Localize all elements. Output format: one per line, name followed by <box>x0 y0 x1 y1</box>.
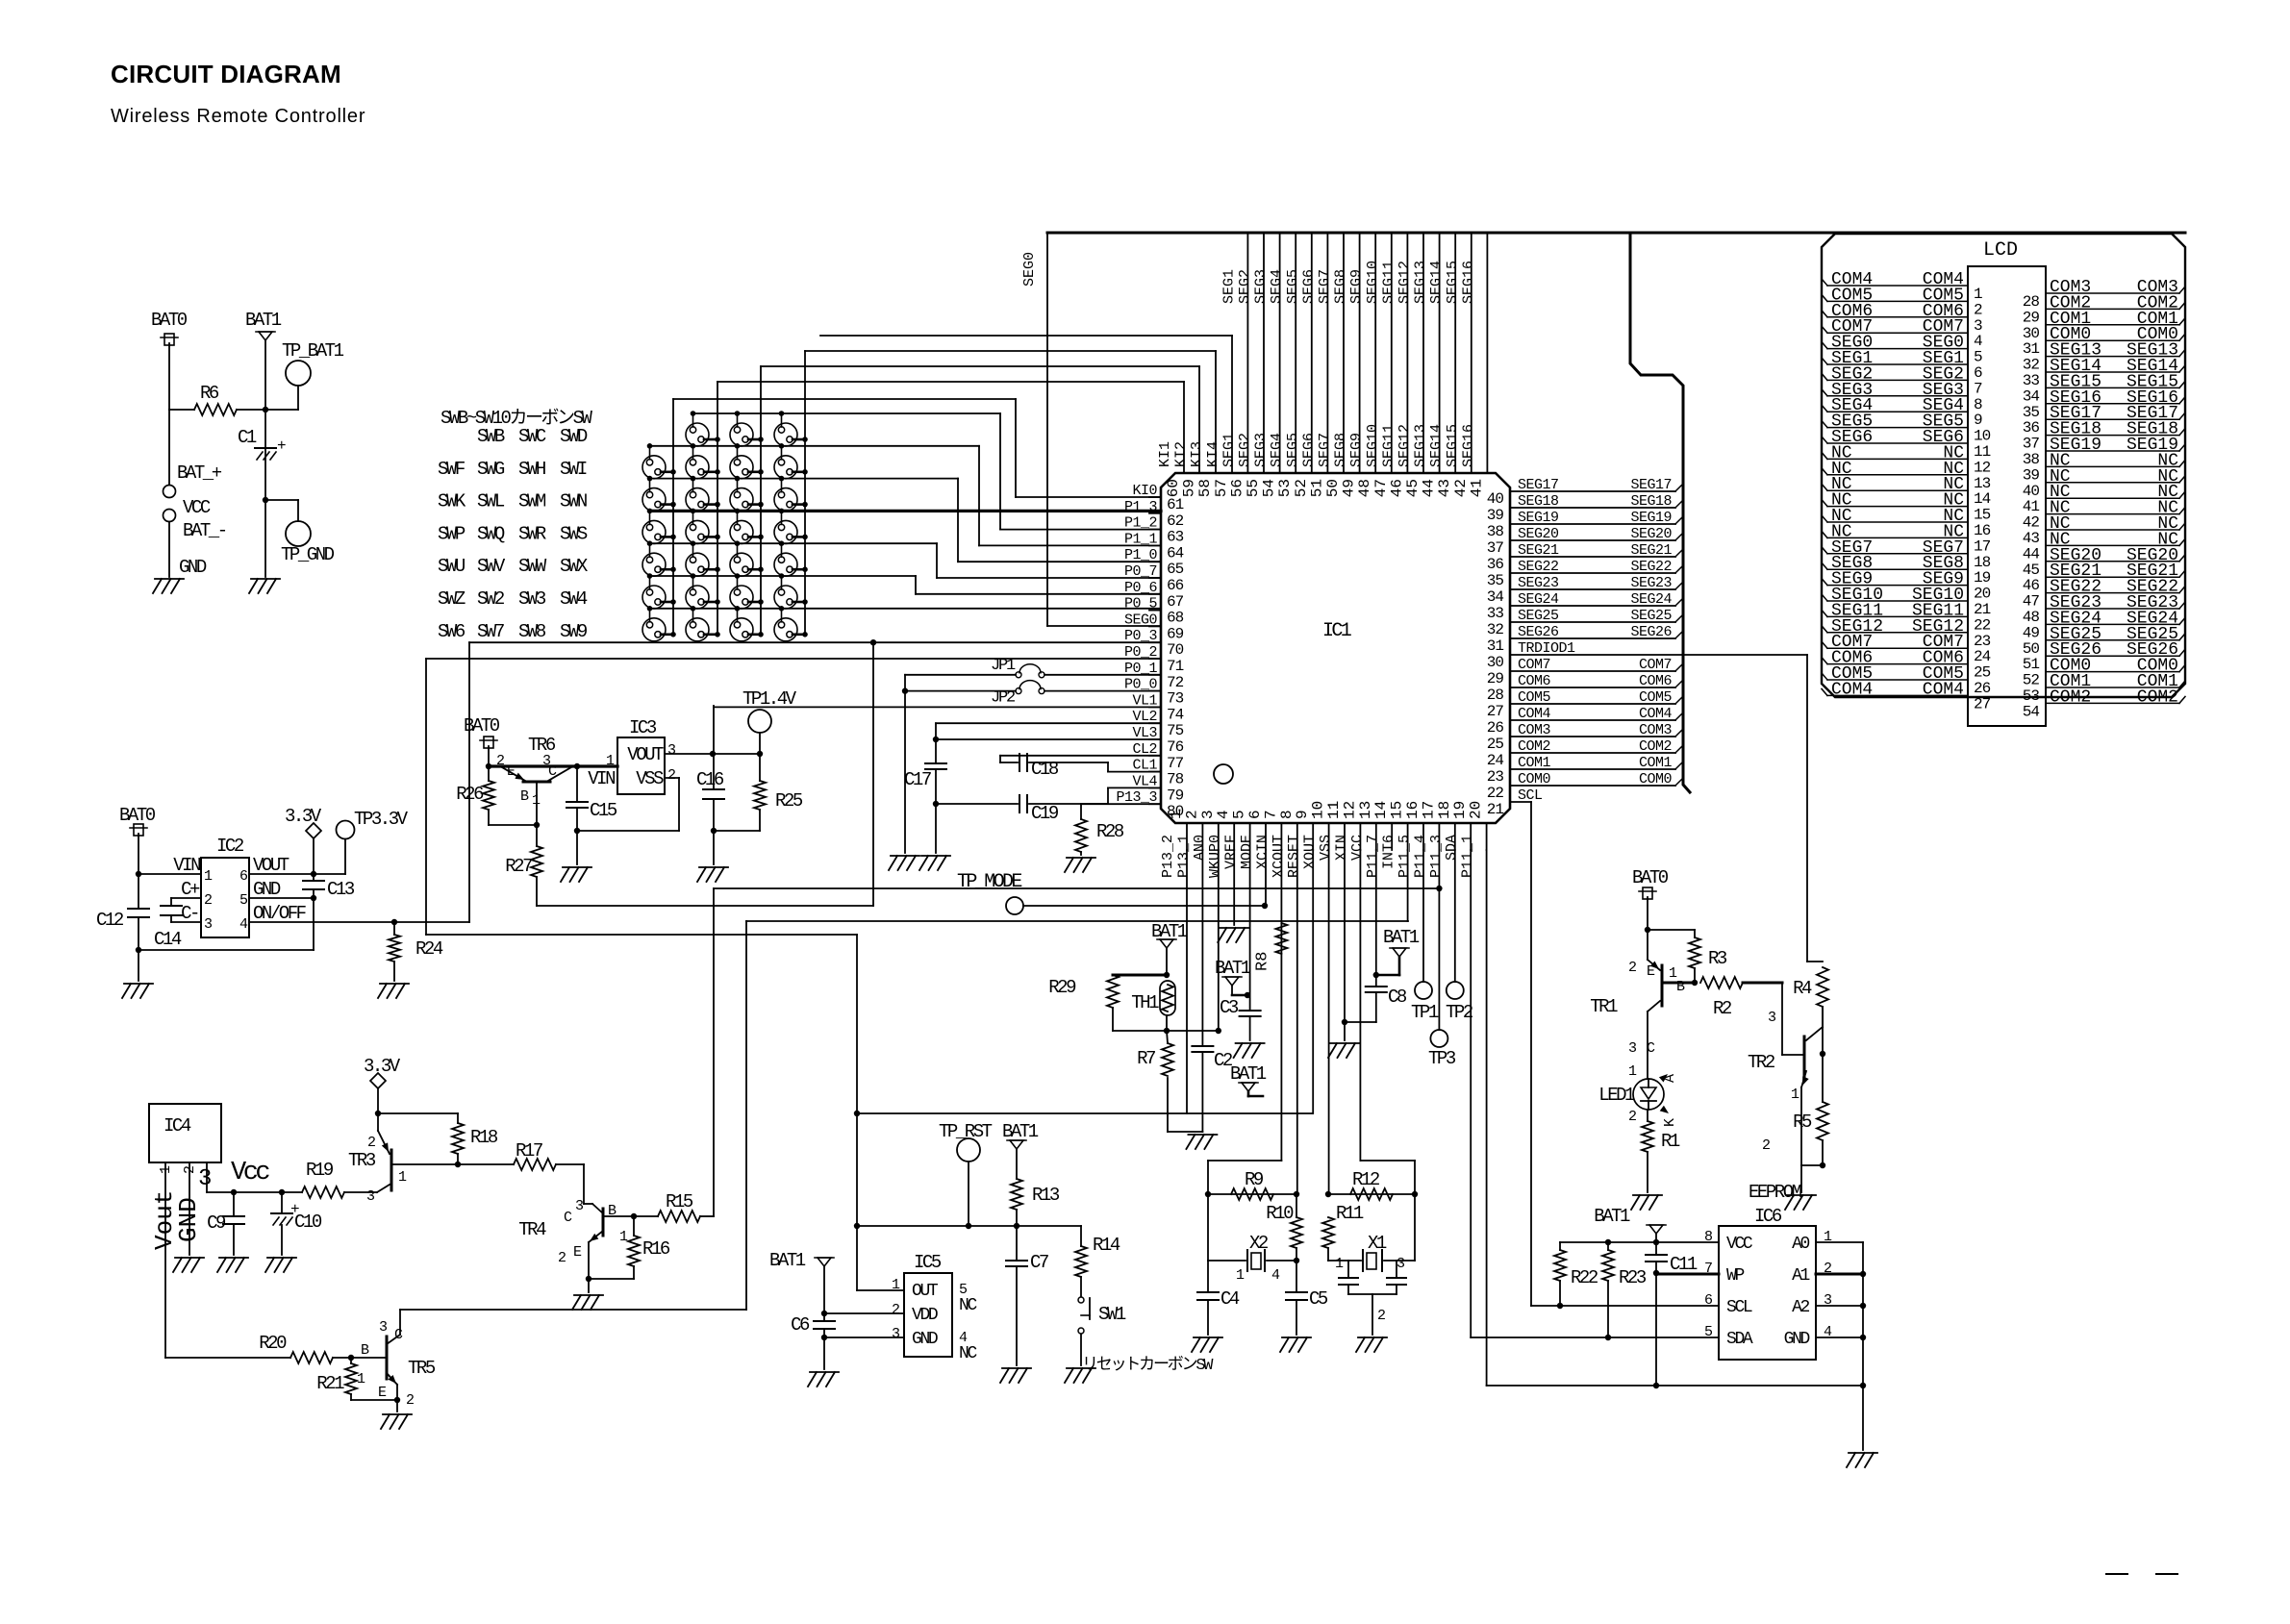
svg-text:SWS: SWS <box>560 523 588 544</box>
svg-text:54: 54 <box>1261 479 1278 497</box>
svg-text:SWZ: SWZ <box>438 588 466 610</box>
svg-text:TP_MODE: TP_MODE <box>957 871 1021 893</box>
svg-text:2: 2 <box>367 1135 375 1151</box>
svg-text:COM4: COM4 <box>1831 680 1873 699</box>
svg-text:SW6: SW6 <box>438 621 466 642</box>
svg-text:GND: GND <box>253 879 281 900</box>
svg-text:14: 14 <box>1372 801 1390 819</box>
svg-text:SEG11: SEG11 <box>1380 261 1397 304</box>
svg-text:12: 12 <box>1341 801 1358 819</box>
svg-text:SDA: SDA <box>1444 835 1460 861</box>
svg-text:TP3: TP3 <box>1428 1048 1456 1069</box>
svg-text:R1: R1 <box>1661 1131 1680 1152</box>
svg-text:C15: C15 <box>590 800 617 821</box>
svg-text:C19: C19 <box>1031 803 1059 824</box>
svg-text:SEG1: SEG1 <box>1220 433 1237 467</box>
svg-text:C4: C4 <box>1220 1288 1240 1310</box>
svg-text:9: 9 <box>1294 810 1311 819</box>
svg-text:CIRCUIT DIAGRAM: CIRCUIT DIAGRAM <box>111 60 341 88</box>
svg-text:SEG7: SEG7 <box>1317 433 1333 467</box>
svg-text:69: 69 <box>1167 625 1184 642</box>
svg-text:25: 25 <box>1487 736 1504 753</box>
svg-text:R29: R29 <box>1048 977 1076 998</box>
svg-text:21: 21 <box>1487 801 1504 818</box>
svg-text:9: 9 <box>1974 412 1982 429</box>
svg-text:42: 42 <box>2023 514 2040 532</box>
svg-text:SWC: SWC <box>518 426 546 447</box>
svg-text:38: 38 <box>1487 523 1504 540</box>
svg-text:12: 12 <box>1974 459 1991 476</box>
svg-text:50: 50 <box>2023 640 2040 658</box>
svg-text:73: 73 <box>1167 690 1184 708</box>
svg-text:2: 2 <box>1183 810 1200 819</box>
svg-text:A0: A0 <box>1792 1235 1809 1254</box>
svg-text:R2: R2 <box>1713 998 1732 1019</box>
svg-text:SW8: SW8 <box>518 621 546 642</box>
svg-text:WKUP0: WKUP0 <box>1207 835 1223 878</box>
svg-text:13: 13 <box>1974 475 1991 492</box>
svg-text:VCC: VCC <box>183 497 211 518</box>
svg-text:48: 48 <box>2023 609 2040 626</box>
svg-text:SEG6: SEG6 <box>1300 269 1317 304</box>
svg-text:BAT1: BAT1 <box>1215 958 1251 979</box>
svg-text:44: 44 <box>2023 545 2040 562</box>
svg-text:C-: C- <box>181 903 198 924</box>
svg-text:8: 8 <box>1974 396 1982 413</box>
svg-text:78: 78 <box>1167 771 1184 788</box>
svg-text:53: 53 <box>1276 479 1294 497</box>
svg-text:8: 8 <box>1278 810 1296 819</box>
svg-text:SWL: SWL <box>477 491 505 512</box>
svg-text:2: 2 <box>406 1392 414 1409</box>
svg-text:SW4: SW4 <box>560 588 588 610</box>
svg-text:48: 48 <box>1356 479 1373 497</box>
svg-text:2: 2 <box>558 1250 566 1266</box>
svg-text:40: 40 <box>1487 490 1504 508</box>
svg-text:21: 21 <box>1974 601 1991 618</box>
svg-text:2: 2 <box>1628 960 1636 976</box>
svg-text:VREF: VREF <box>1223 835 1240 869</box>
svg-text:A2: A2 <box>1792 1298 1809 1317</box>
svg-text:BAT0: BAT0 <box>151 310 188 331</box>
svg-text:BAT0: BAT0 <box>1632 867 1669 888</box>
svg-text:COM4: COM4 <box>1923 680 1964 699</box>
svg-text:60: 60 <box>1165 479 1182 497</box>
svg-text:P11_7: P11_7 <box>1365 835 1381 878</box>
svg-text:SWR: SWR <box>518 523 546 544</box>
svg-text:R18: R18 <box>470 1127 498 1148</box>
svg-text:SEG10: SEG10 <box>1365 261 1381 304</box>
svg-text:24: 24 <box>1487 752 1504 769</box>
svg-text:70: 70 <box>1167 641 1184 659</box>
svg-text:19: 19 <box>1974 569 1991 587</box>
svg-text:67: 67 <box>1167 593 1184 611</box>
svg-text:49: 49 <box>2023 624 2040 641</box>
svg-text:TR4: TR4 <box>518 1219 546 1240</box>
svg-text:66: 66 <box>1167 577 1184 594</box>
svg-text:3: 3 <box>198 1166 211 1192</box>
svg-text:SW1: SW1 <box>1098 1304 1126 1325</box>
svg-text:K: K <box>1662 1118 1678 1127</box>
svg-text:SWI: SWI <box>560 459 587 480</box>
svg-text:BAT0: BAT0 <box>119 805 156 826</box>
svg-text:COM1: COM1 <box>1639 755 1673 771</box>
svg-text:SEG0: SEG0 <box>1021 252 1038 287</box>
svg-text:SEG22: SEG22 <box>1630 559 1672 575</box>
svg-text:62: 62 <box>1167 512 1184 530</box>
svg-text:C13: C13 <box>327 879 355 900</box>
svg-text:18: 18 <box>1974 554 1991 571</box>
svg-text:SW7: SW7 <box>477 621 504 642</box>
svg-text:42: 42 <box>1452 479 1470 497</box>
svg-text:6: 6 <box>1246 810 1264 819</box>
svg-text:63: 63 <box>1167 529 1184 546</box>
svg-text:SEG13: SEG13 <box>1413 261 1429 304</box>
svg-text:17: 17 <box>1420 801 1437 819</box>
svg-text:R19: R19 <box>306 1160 334 1181</box>
svg-text:19: 19 <box>1451 801 1469 819</box>
svg-text:P11_3: P11_3 <box>1428 835 1445 878</box>
svg-text:20: 20 <box>1468 801 1485 819</box>
svg-text:VOUT: VOUT <box>627 744 664 765</box>
svg-text:VSS: VSS <box>636 768 664 789</box>
svg-text:34: 34 <box>2023 387 2040 405</box>
svg-text:61: 61 <box>1167 496 1184 513</box>
svg-text:7: 7 <box>1262 810 1279 819</box>
svg-text:SEG14: SEG14 <box>1428 261 1445 304</box>
svg-text:R22: R22 <box>1571 1267 1598 1288</box>
svg-text:XCOUT: XCOUT <box>1271 835 1287 878</box>
svg-text:GND: GND <box>1784 1330 1810 1349</box>
svg-text:SEG8: SEG8 <box>1333 269 1349 304</box>
svg-text:SEG8: SEG8 <box>1333 433 1349 467</box>
svg-text:SW3: SW3 <box>518 588 546 610</box>
svg-text:74: 74 <box>1167 706 1184 723</box>
svg-text:C3: C3 <box>1220 997 1239 1018</box>
svg-text:3.3V: 3.3V <box>285 806 322 827</box>
svg-text:51: 51 <box>1308 479 1325 497</box>
svg-text:SEG4: SEG4 <box>1269 433 1285 467</box>
svg-text:65: 65 <box>1167 561 1184 578</box>
svg-text:4: 4 <box>1974 333 1982 350</box>
svg-text:COM6: COM6 <box>1639 673 1673 689</box>
svg-text:MODE: MODE <box>1239 835 1255 869</box>
svg-text:SWU: SWU <box>438 556 466 577</box>
svg-text:BAT1: BAT1 <box>1002 1121 1039 1142</box>
svg-text:C12: C12 <box>96 910 124 931</box>
svg-text:TP3.3V: TP3.3V <box>354 809 409 830</box>
svg-text:C17: C17 <box>904 769 931 790</box>
svg-text:Vcc: Vcc <box>231 1159 269 1187</box>
svg-text:BAT_-: BAT_- <box>183 520 226 541</box>
svg-text:R3: R3 <box>1708 948 1727 969</box>
svg-text:2: 2 <box>1974 301 1982 318</box>
svg-text:43: 43 <box>2023 530 2040 547</box>
svg-text:EEPROM: EEPROM <box>1749 1182 1802 1203</box>
svg-text:1: 1 <box>1168 810 1185 819</box>
svg-text:41: 41 <box>2023 498 2040 515</box>
svg-text:39: 39 <box>1487 507 1504 524</box>
svg-text:2: 2 <box>1628 1109 1636 1125</box>
svg-text:23: 23 <box>1487 768 1504 786</box>
svg-text:P11_4: P11_4 <box>1412 835 1428 878</box>
svg-text:SEG5: SEG5 <box>1285 433 1301 467</box>
svg-text:59: 59 <box>1181 479 1198 497</box>
svg-text:IC6: IC6 <box>1754 1206 1782 1227</box>
svg-text:SEG26: SEG26 <box>1630 624 1672 640</box>
svg-text:TR5: TR5 <box>408 1358 436 1379</box>
svg-text:22: 22 <box>1974 616 1991 634</box>
svg-text:2: 2 <box>204 892 212 909</box>
svg-text:41: 41 <box>1468 479 1485 497</box>
svg-text:BAT1: BAT1 <box>245 310 282 331</box>
svg-text:P11_5: P11_5 <box>1397 835 1413 878</box>
svg-text:COM5: COM5 <box>1639 689 1673 706</box>
svg-text:45: 45 <box>1404 479 1422 497</box>
svg-text:SEG12: SEG12 <box>1397 424 1413 467</box>
svg-text:57: 57 <box>1213 479 1230 497</box>
svg-text:TR3: TR3 <box>348 1150 376 1171</box>
svg-text:R20: R20 <box>259 1333 287 1354</box>
svg-text:SEG9: SEG9 <box>1348 269 1365 304</box>
svg-text:GND: GND <box>912 1330 938 1349</box>
svg-text:49: 49 <box>1341 479 1358 497</box>
svg-text:17: 17 <box>1974 537 1991 555</box>
svg-text:C+: C+ <box>181 879 200 900</box>
svg-text:SEG17: SEG17 <box>1630 477 1672 493</box>
svg-text:68: 68 <box>1167 610 1184 627</box>
svg-text:6: 6 <box>1974 364 1982 382</box>
svg-text:20: 20 <box>1974 586 1991 603</box>
svg-text:SWG: SWG <box>477 459 505 480</box>
svg-text:TP1.4V: TP1.4V <box>742 688 797 710</box>
svg-text:SEG2: SEG2 <box>1237 433 1253 467</box>
svg-text:SEG2: SEG2 <box>1237 269 1253 304</box>
svg-text:36: 36 <box>2023 419 2040 437</box>
svg-text:29: 29 <box>1487 670 1504 687</box>
svg-text:15: 15 <box>1974 507 1991 524</box>
svg-text:IC4: IC4 <box>164 1115 191 1137</box>
svg-text:5: 5 <box>1974 349 1982 366</box>
svg-text:BAT1: BAT1 <box>1383 927 1420 948</box>
svg-text:COM4: COM4 <box>1639 706 1673 722</box>
svg-text:R23: R23 <box>1619 1267 1647 1288</box>
svg-text:BAT_+: BAT_+ <box>177 462 222 484</box>
svg-text:X2: X2 <box>1249 1233 1269 1254</box>
svg-text:2: 2 <box>667 767 675 784</box>
svg-text:TP2: TP2 <box>1446 1002 1473 1023</box>
svg-text:TP_BAT1: TP_BAT1 <box>282 340 344 362</box>
svg-text:26: 26 <box>1487 719 1504 737</box>
svg-text:SEG18: SEG18 <box>1630 493 1672 510</box>
svg-text:C5: C5 <box>1309 1288 1328 1310</box>
svg-text:P13_1: P13_1 <box>1175 835 1192 878</box>
svg-text:WP: WP <box>1726 1266 1744 1286</box>
svg-text:SWD: SWD <box>560 426 588 447</box>
svg-text:R21: R21 <box>316 1373 344 1394</box>
svg-text:VCC: VCC <box>1349 835 1366 861</box>
svg-text:38: 38 <box>2023 451 2040 468</box>
svg-text:22: 22 <box>1487 785 1504 802</box>
svg-text:29: 29 <box>2023 309 2040 326</box>
svg-text:P11_1: P11_1 <box>1460 835 1476 878</box>
svg-text:4: 4 <box>1215 810 1232 819</box>
svg-text:R14: R14 <box>1093 1235 1120 1256</box>
svg-text:71: 71 <box>1167 658 1184 675</box>
svg-text:37: 37 <box>1487 539 1504 557</box>
svg-text:33: 33 <box>1487 605 1504 622</box>
svg-text:SEG16: SEG16 <box>1460 261 1476 304</box>
svg-text:IC2: IC2 <box>216 836 244 857</box>
svg-text:SEG19: SEG19 <box>1630 510 1672 526</box>
svg-text:R11: R11 <box>1336 1203 1364 1224</box>
svg-text:TR1: TR1 <box>1590 996 1618 1017</box>
svg-text:33: 33 <box>2023 372 2040 389</box>
svg-text:C8: C8 <box>1388 987 1407 1008</box>
svg-text:KI4: KI4 <box>1205 441 1221 467</box>
svg-text:76: 76 <box>1167 738 1184 756</box>
svg-text:SEG23: SEG23 <box>1630 575 1672 591</box>
svg-text:BAT1: BAT1 <box>1230 1063 1267 1085</box>
svg-text:2: 2 <box>182 1165 198 1174</box>
svg-text:TP_GND: TP_GND <box>281 544 335 565</box>
svg-text:NC: NC <box>959 1344 977 1363</box>
svg-text:47: 47 <box>1372 479 1390 497</box>
svg-text:R28: R28 <box>1096 821 1124 842</box>
svg-text:KI3: KI3 <box>1189 441 1205 467</box>
svg-text:SWV: SWV <box>477 556 506 577</box>
svg-text:37: 37 <box>2023 436 2040 453</box>
svg-text:SW9: SW9 <box>560 621 588 642</box>
svg-text:COM7: COM7 <box>1639 657 1672 673</box>
svg-text:30: 30 <box>1487 654 1504 671</box>
svg-text:52: 52 <box>2023 672 2040 689</box>
svg-text:KI1: KI1 <box>1157 441 1173 467</box>
svg-text:TH1: TH1 <box>1131 992 1159 1013</box>
svg-text:SEG6: SEG6 <box>1300 433 1317 467</box>
svg-text:1: 1 <box>1974 286 1982 303</box>
svg-text:SEG13: SEG13 <box>1413 424 1429 467</box>
svg-text:R13: R13 <box>1032 1185 1060 1206</box>
svg-text:TP1: TP1 <box>1411 1002 1439 1023</box>
svg-text:44: 44 <box>1421 479 1438 497</box>
svg-text:28: 28 <box>2023 293 2040 311</box>
svg-text:14: 14 <box>1974 490 1991 508</box>
svg-text:SEG5: SEG5 <box>1285 269 1301 304</box>
svg-text:46: 46 <box>2023 577 2040 594</box>
svg-text:Wireless Remote Controller: Wireless Remote Controller <box>111 106 365 127</box>
svg-text:50: 50 <box>1324 479 1342 497</box>
svg-text:35: 35 <box>2023 404 2040 421</box>
svg-text:AN0: AN0 <box>1192 835 1208 861</box>
svg-text:GND: GND <box>174 1197 203 1242</box>
svg-text:10: 10 <box>1310 801 1327 819</box>
svg-text:SEG4: SEG4 <box>1269 269 1285 304</box>
svg-text:R7: R7 <box>1137 1048 1155 1069</box>
svg-text:SEG25: SEG25 <box>1630 608 1672 624</box>
svg-text:SEG20: SEG20 <box>1630 526 1672 542</box>
svg-text:R27: R27 <box>505 856 532 877</box>
svg-text:64: 64 <box>1167 544 1184 562</box>
svg-text:R26: R26 <box>456 784 484 805</box>
svg-text:LED1: LED1 <box>1598 1085 1635 1106</box>
svg-text:SEG7: SEG7 <box>1317 269 1333 304</box>
svg-text:27: 27 <box>1487 703 1504 720</box>
svg-text:SWW: SWW <box>518 556 547 577</box>
svg-text:43: 43 <box>1436 479 1453 497</box>
svg-text:SEG9: SEG9 <box>1348 433 1365 467</box>
svg-text:30: 30 <box>2023 325 2040 342</box>
svg-text:SEG1: SEG1 <box>1220 269 1237 304</box>
svg-text:VOUT: VOUT <box>253 855 289 876</box>
svg-text:27: 27 <box>1974 695 1991 712</box>
svg-text:11: 11 <box>1325 801 1343 819</box>
svg-text:C9: C9 <box>207 1212 226 1234</box>
svg-text:SCL: SCL <box>1726 1298 1752 1317</box>
svg-text:COM2: COM2 <box>2137 687 2178 707</box>
svg-text:55: 55 <box>1245 479 1262 497</box>
svg-text:SWX: SWX <box>560 556 589 577</box>
svg-text:15: 15 <box>1389 801 1406 819</box>
svg-text:C6: C6 <box>791 1314 810 1336</box>
svg-text:13: 13 <box>1357 801 1374 819</box>
svg-text:32: 32 <box>2023 357 2040 374</box>
svg-text:JP2: JP2 <box>991 689 1015 708</box>
svg-text:C10: C10 <box>294 1212 322 1233</box>
svg-text:LCD: LCD <box>1983 239 2018 262</box>
svg-text:C18: C18 <box>1031 759 1059 780</box>
svg-text:VIN: VIN <box>588 768 615 789</box>
svg-text:INT6: INT6 <box>1381 835 1397 869</box>
svg-text:SWP: SWP <box>438 523 466 544</box>
svg-text:46: 46 <box>1388 479 1405 497</box>
svg-text:75: 75 <box>1167 722 1184 739</box>
svg-text:R25: R25 <box>775 790 803 812</box>
svg-text:BAT1: BAT1 <box>769 1250 806 1271</box>
svg-text:COM3: COM3 <box>1639 722 1673 738</box>
svg-text:18: 18 <box>1436 801 1453 819</box>
svg-text:32: 32 <box>1487 621 1504 638</box>
svg-text:COM2: COM2 <box>1639 738 1672 755</box>
svg-text:VCC: VCC <box>1726 1235 1753 1254</box>
svg-text:72: 72 <box>1167 674 1184 691</box>
svg-text:26: 26 <box>1974 680 1991 697</box>
svg-text:COM0: COM0 <box>1639 771 1673 787</box>
svg-text:R6: R6 <box>200 383 219 404</box>
svg-text:X1: X1 <box>1368 1233 1387 1254</box>
svg-text:C7: C7 <box>1030 1252 1048 1273</box>
svg-text:3.3V: 3.3V <box>364 1056 401 1077</box>
svg-text:10: 10 <box>1974 428 1991 445</box>
svg-text:35: 35 <box>1487 572 1504 589</box>
svg-text:SWQ: SWQ <box>477 523 505 544</box>
svg-text:3: 3 <box>1974 317 1982 335</box>
svg-text:COM2: COM2 <box>2050 687 2091 707</box>
svg-text:R24: R24 <box>415 938 443 960</box>
svg-text:52: 52 <box>1293 479 1310 497</box>
svg-text:IC5: IC5 <box>914 1252 942 1273</box>
svg-text:31: 31 <box>1487 637 1504 655</box>
svg-text:77: 77 <box>1167 755 1184 772</box>
svg-text:OUT: OUT <box>912 1282 939 1301</box>
svg-text:RESET: RESET <box>1286 835 1302 878</box>
svg-text:IC1: IC1 <box>1322 620 1352 642</box>
svg-text:NC: NC <box>959 1296 977 1315</box>
svg-text:58: 58 <box>1196 479 1214 497</box>
svg-text:BAT0: BAT0 <box>464 715 500 737</box>
svg-text:2: 2 <box>1377 1308 1385 1324</box>
svg-text:R4: R4 <box>1793 978 1812 999</box>
